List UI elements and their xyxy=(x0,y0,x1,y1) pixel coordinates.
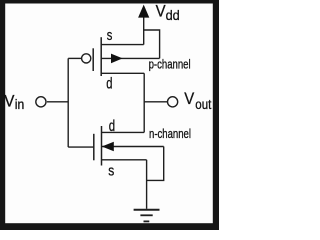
svg-text:n-channel: n-channel xyxy=(149,127,191,141)
svg-text:s: s xyxy=(107,27,113,44)
ground xyxy=(134,210,160,222)
svg-text:out: out xyxy=(195,97,211,112)
svg-text:V: V xyxy=(156,3,166,21)
svg-text:V: V xyxy=(184,90,194,108)
wire: nmos source to ground xyxy=(146,160,148,209)
pmos gate plate xyxy=(92,48,94,71)
wire: Vout lead xyxy=(144,101,167,103)
terminal Vout xyxy=(168,97,178,107)
nmos body arrow (points left) xyxy=(102,142,114,152)
power VDD arrow xyxy=(138,5,149,18)
svg-text:dd: dd xyxy=(166,8,180,23)
wire: nmos drain lead xyxy=(102,131,145,133)
wire: Vin lead xyxy=(47,101,68,103)
wire: pmos source lead xyxy=(101,44,144,46)
wire: pmos gate wire xyxy=(68,57,81,59)
wire: nmos gate wire xyxy=(68,146,94,148)
label Vdd xyxy=(156,3,180,23)
label Vout xyxy=(184,90,211,112)
wire: pmos drain lead xyxy=(101,72,144,74)
wire: output node vertical xyxy=(143,73,145,132)
pmos body arrow (points right) xyxy=(111,54,123,64)
nmos channel line xyxy=(101,126,103,166)
wire: nmos body lead xyxy=(102,146,164,148)
wire: Vdd rail vertical xyxy=(143,17,145,45)
svg-text:in: in xyxy=(15,97,24,112)
wire: input gate bus xyxy=(67,58,69,147)
svg-text:s: s xyxy=(108,162,114,179)
svg-text:d: d xyxy=(106,76,112,93)
pmos gate bubble xyxy=(82,54,91,63)
pmos channel line xyxy=(100,37,102,76)
wire: nmos source lead xyxy=(102,159,147,161)
wire: nmos body to source xyxy=(147,147,164,181)
pmos transistor xyxy=(82,37,160,76)
label Vin xyxy=(4,93,24,113)
nmos gate plate xyxy=(93,134,95,161)
nmos transistor xyxy=(94,126,164,166)
wire: pmos body to Vdd xyxy=(144,30,160,58)
svg-text:d: d xyxy=(109,118,115,135)
wire: pmos body lead xyxy=(101,57,159,59)
terminal Vin xyxy=(36,97,46,107)
svg-text:p-channel: p-channel xyxy=(149,58,191,72)
svg-text:V: V xyxy=(4,93,14,111)
